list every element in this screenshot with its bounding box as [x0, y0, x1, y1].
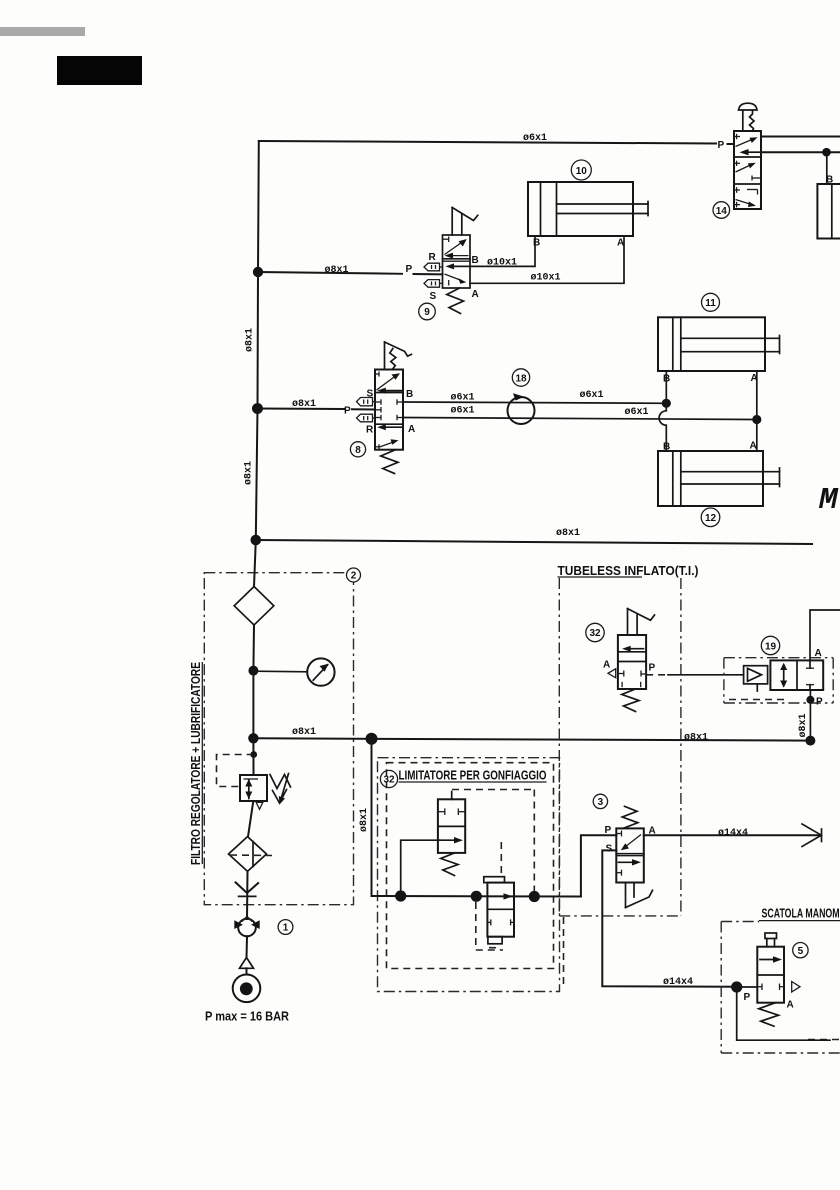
- svg-text:A: A: [787, 1000, 794, 1011]
- rotary joint 18: [508, 393, 535, 424]
- filter diamond F1: [234, 587, 274, 626]
- caption LIMITATORE PER GONFIAGGIO: [399, 769, 547, 783]
- pressure gauge G1: [307, 658, 334, 685]
- svg-text:ø8x1: ø8x1: [325, 265, 349, 276]
- port label B cylinder 12: [663, 442, 670, 453]
- valve V14 left arrow line B return: [740, 149, 762, 155]
- silencer on V9 port R: [424, 263, 443, 271]
- svg-text:A: A: [603, 660, 610, 671]
- svg-text:ø10x1: ø10x1: [531, 273, 561, 284]
- valve V8 top section arrow: [375, 372, 400, 391]
- svg-text:ø8x1: ø8x1: [245, 328, 256, 352]
- pipe label ø10x1 lower: [531, 273, 561, 284]
- pilot regulator PR1 body: [487, 883, 514, 937]
- port label P valve 32a: [649, 663, 656, 674]
- valve V32b flow arrow: [440, 837, 463, 843]
- valve V3 body 3/2: [616, 828, 644, 882]
- valve V14 palm button actuator: [739, 103, 758, 131]
- enclosure LIMITATORE outer dash-dot box: [378, 758, 560, 992]
- port label A unit 19: [815, 648, 822, 659]
- pipe label ø8x1 vertical upper: [245, 328, 256, 352]
- wire: V9 A to cylinder 10 A ø10x1: [470, 236, 624, 283]
- label circle 18: [512, 369, 529, 386]
- valve V8 bottom left arrow: [377, 424, 402, 430]
- wire: filter to gauge tee: [252, 625, 255, 671]
- port label R valve 9: [429, 252, 437, 263]
- caption TUBELESS INFLATO(T.I.): [558, 564, 699, 578]
- svg-text:19: 19: [765, 641, 777, 652]
- valve V9 B-to-R arrow: [446, 263, 471, 269]
- cylinder C11 piston rod: [681, 336, 780, 354]
- wire: limiter to valve 3 P riser: [581, 835, 616, 896]
- valve V32a pedal lever actuator: [628, 609, 655, 635]
- svg-text:ø14x4: ø14x4: [663, 977, 693, 988]
- wire: branch ø8x1 to valve 9 P: [258, 272, 443, 274]
- svg-text:M: M: [818, 483, 839, 518]
- cylinder C12 body: [658, 451, 763, 506]
- port label A valve 9: [472, 289, 479, 300]
- valve V3 top spring: [622, 806, 638, 828]
- svg-text:P: P: [344, 406, 351, 417]
- node H junction dot ø8x1 distribution: [248, 733, 258, 743]
- valve V32b return spring: [441, 853, 458, 876]
- wire: unit 19 P down to ø8x1 line: [809, 690, 811, 741]
- valve V9 return spring: [447, 288, 464, 314]
- port label A valve 32a: [603, 660, 610, 671]
- valve V3 bottom lever actuator: [626, 883, 653, 908]
- svg-text:14: 14: [716, 206, 728, 217]
- svg-text:12: 12: [705, 513, 717, 524]
- enclosure TUBELESS INFLATOR dash-dot box: [559, 578, 681, 988]
- valve V3 top diagonal arrow A to S: [616, 831, 641, 851]
- svg-text:P: P: [816, 697, 823, 708]
- wire: V14 side line to node D: [761, 151, 840, 153]
- node E junction dot B-net: [662, 399, 671, 408]
- pilot regulator PR1 bottom tab: [488, 937, 502, 948]
- svg-text:B: B: [663, 442, 670, 453]
- pipe label ø8x1 branch1: [325, 265, 349, 276]
- label circle 5: [793, 943, 808, 958]
- pipe label ø6x1 B-left: [451, 393, 475, 404]
- label circle 12: [701, 508, 720, 527]
- wire: gauge tee down to ø8x1 tee: [252, 671, 254, 738]
- port label S valve 9: [430, 291, 437, 302]
- valve V9 R exhaust arrow: [445, 253, 469, 259]
- wire: node D down to cylinder 15 port B: [826, 152, 828, 184]
- wire: bottom distribution line ø8x1: [256, 540, 812, 544]
- svg-text:ø6x1: ø6x1: [625, 407, 649, 418]
- valve V8 upper left arrow: [377, 388, 402, 394]
- node N junction dot at pilot regulator left: [471, 891, 482, 902]
- regulator drain triangle: [256, 802, 263, 809]
- node B junction dot main/branch2: [252, 403, 263, 414]
- svg-text:18: 18: [515, 373, 527, 384]
- valve V14 section3 arrows: [734, 187, 758, 207]
- valve V9 roller-lever actuator: [452, 208, 478, 236]
- pipe label ø14x4 upper: [718, 828, 748, 839]
- wire: supply into box 2: [254, 540, 256, 587]
- label circle 9: [419, 303, 436, 320]
- valve V32b top box ticks: [438, 808, 465, 815]
- port label S valve 3: [606, 844, 613, 855]
- svg-text:B: B: [663, 374, 670, 385]
- valve V8 centre section port ticks: [375, 399, 403, 420]
- svg-text:SCATOLA MANOME: SCATOLA MANOME: [762, 907, 840, 921]
- pipe label ø8x1 vertical at unit 19: [798, 713, 809, 737]
- svg-text:32: 32: [589, 628, 601, 639]
- valve V32a return spring: [622, 689, 639, 712]
- port label P valve 9: [406, 264, 413, 275]
- pipe label ø14x4 lower: [663, 977, 693, 988]
- label circle 8: [350, 442, 365, 457]
- port label B cylinder 15: [826, 175, 833, 186]
- pipe label ø8x1 mid: [684, 733, 708, 744]
- node C junction dot main/bottom line: [251, 535, 262, 546]
- cylinder C12 piston rod: [681, 468, 780, 487]
- svg-text:P: P: [744, 992, 751, 1003]
- pilot line dashed to regulator: [217, 755, 254, 787]
- svg-text:ø8x1: ø8x1: [292, 399, 316, 410]
- silencer on V9 port S: [424, 280, 443, 288]
- pipe label ø8x1 at FRL: [292, 727, 316, 738]
- port label A valve 8: [408, 424, 415, 435]
- port label S valve 8: [367, 389, 374, 400]
- wire: A net vertical cylinder 11 to cylinder 12: [756, 371, 758, 451]
- svg-text:A: A: [408, 424, 415, 435]
- pipe label ø6x1 top: [523, 133, 547, 144]
- svg-text:S: S: [606, 844, 613, 855]
- label circle 1: [278, 920, 293, 935]
- svg-text:P max = 16 BAR: P max = 16 BAR: [205, 1010, 289, 1024]
- svg-text:A: A: [472, 289, 479, 300]
- valve V14 body 3-position: [734, 131, 761, 209]
- svg-text:1: 1: [283, 923, 289, 934]
- node J small dot pilot takeoff: [250, 751, 257, 758]
- port label P unit 19: [816, 697, 823, 708]
- cylinder C11 body: [658, 317, 765, 371]
- svg-text:ø10x1: ø10x1: [487, 258, 517, 269]
- wire: branch ø8x1 to valve 8 P: [258, 409, 376, 410]
- wire: valve 3 A outlet ø14x4 with arrow: [644, 824, 822, 847]
- cylinder C10 body: [528, 182, 633, 236]
- svg-text:8: 8: [355, 445, 361, 456]
- svg-text:9: 9: [424, 307, 430, 318]
- check valve in unit 19: [744, 666, 768, 691]
- port label B cylinder 11: [663, 374, 670, 385]
- node P junction dot scatola inlet: [731, 981, 742, 992]
- svg-text:A: A: [815, 648, 822, 659]
- svg-text:TUBELESS INFLATO(T.I.): TUBELESS INFLATO(T.I.): [558, 564, 699, 578]
- valve V9 bottom diagonal arrow: [445, 274, 467, 286]
- svg-text:A: A: [751, 373, 758, 384]
- wire: B net vertical cylinder 11 to cylinder 12: [659, 371, 666, 451]
- pilot regulator PR1 lower ticks: [487, 919, 514, 925]
- svg-text:ø14x4: ø14x4: [718, 828, 748, 839]
- wire: V8 A line ø6x1 with hop over B net: [403, 418, 753, 420]
- caption SCATOLA MANOM: [762, 907, 840, 921]
- svg-text:ø8x1: ø8x1: [359, 808, 370, 832]
- valve V32a exhaust triangle port A: [608, 669, 616, 678]
- silencer on V8 port R: [357, 414, 376, 422]
- label circle 2: [347, 568, 361, 582]
- pipe label ø10x1 upper: [487, 258, 517, 269]
- wire: coupling to check triangle: [246, 936, 249, 958]
- port label P valve 8: [344, 406, 351, 417]
- quick coupling body circle: [234, 916, 259, 936]
- svg-text:B: B: [406, 389, 413, 400]
- svg-text:P: P: [406, 264, 413, 275]
- wire: main vertical supply line: [256, 141, 259, 540]
- port label P valve 14: [718, 140, 725, 151]
- svg-text:5: 5: [798, 946, 804, 957]
- valve V9 top section arrow: [443, 237, 467, 255]
- node A junction dot main/branch1: [253, 267, 263, 277]
- wire: V9 B to cylinder 10 B ø10x1: [470, 236, 535, 266]
- enclosure SCATOLA MANOMETRO dashed box: [721, 921, 840, 1053]
- svg-text:S: S: [430, 291, 437, 302]
- check triangle symbol: [240, 958, 254, 969]
- valve V32a bottom ticks: [618, 671, 646, 688]
- valve V5 return spring: [759, 1003, 779, 1026]
- pilot regulator PR1 flow arrow: [504, 893, 513, 899]
- svg-text:ø6x1: ø6x1: [523, 133, 547, 144]
- svg-text:A: A: [617, 238, 624, 249]
- cylinder C10 piston rod: [557, 202, 649, 216]
- svg-text:32: 32: [383, 775, 395, 786]
- node M junction dot limiter left: [395, 890, 406, 901]
- regulator adjusting spring: [270, 774, 291, 805]
- svg-text:3: 3: [598, 797, 604, 808]
- wire: V14 top outlet to right edge: [761, 136, 840, 138]
- svg-text:P: P: [649, 663, 656, 674]
- valve V8 bottom diagonal arrow: [375, 439, 399, 449]
- wire: ø8x1 line from FRL to valve 19 P net: [253, 738, 810, 740]
- wire: lubricator to outlet chevron: [246, 871, 249, 919]
- caption P max = 16 BAR: [205, 1010, 289, 1024]
- valve V5 body 3/2: [757, 947, 784, 1003]
- wire: regulator to lubricator: [248, 801, 253, 837]
- wire: branch to pressure gauge: [253, 670, 307, 673]
- valve V8 return spring: [381, 450, 398, 474]
- wire: unit 19 A up and right to edge: [810, 610, 840, 660]
- valve V32a top arrow: [622, 646, 644, 652]
- wire: V8 B line ø6x1 to node E: [403, 402, 666, 403]
- valve V32b body 3/2 in limiter: [438, 792, 465, 853]
- valve V9 body 5/2: [443, 235, 471, 288]
- wire: limiter line up into V32b: [401, 840, 440, 896]
- label circle 14: [713, 202, 730, 219]
- pressure regulator R1: [240, 775, 267, 801]
- svg-text:P: P: [718, 140, 725, 151]
- label circle 19: [761, 636, 779, 654]
- regulator valve in unit 19: [770, 660, 823, 690]
- port label B valve 8: [406, 389, 413, 400]
- svg-text:ø8x1: ø8x1: [684, 733, 708, 744]
- port label A valve 3: [649, 826, 656, 837]
- valve V5 push button actuator: [765, 933, 777, 947]
- svg-text:ø8x1: ø8x1: [556, 528, 580, 539]
- lubricator L1 diamond: [229, 837, 273, 872]
- node O junction dot at pilot regulator right: [529, 891, 540, 902]
- svg-text:10: 10: [576, 166, 588, 177]
- svg-text:P: P: [605, 825, 612, 836]
- valve V8 body 5/3: [375, 370, 403, 450]
- valve V3 lower flow arrow: [616, 859, 641, 876]
- node D junction dot at cylinder 15 branch: [822, 148, 831, 157]
- valve V5 lower ticks: [757, 984, 784, 991]
- enclosure LIMITATORE inner dashed box: [387, 763, 554, 969]
- port label A cylinder 11: [751, 373, 758, 384]
- node K junction dot unit 19 P: [806, 696, 814, 704]
- unit 19 double arrow element: [780, 663, 787, 688]
- node G junction dot gauge branch: [248, 666, 258, 676]
- port label P valve 5: [744, 992, 751, 1003]
- svg-text:FILTRO REGOLATORE + LUBRIFICAT: FILTRO REGOLATORE + LUBRIFICATORE: [189, 662, 203, 865]
- valve V14 section1 arrow: [734, 134, 758, 147]
- svg-text:ø8x1: ø8x1: [244, 461, 255, 485]
- svg-text:ø8x1: ø8x1: [292, 727, 316, 738]
- svg-text:B: B: [533, 238, 540, 249]
- node F junction dot A-net: [752, 415, 761, 424]
- pipe label ø6x1 A-right: [625, 407, 649, 418]
- wire: node P to valve 5: [737, 986, 758, 988]
- svg-text:S: S: [367, 389, 374, 400]
- pipe label ø8x1 bottom line: [556, 528, 580, 539]
- svg-text:A: A: [750, 441, 757, 452]
- label circle 10: [571, 160, 591, 180]
- pilot regulator PR1 top tab: [484, 877, 505, 883]
- pipe label ø8x1 vertical lower: [244, 461, 255, 485]
- scan artifact gray bar top-left: [0, 27, 85, 36]
- svg-text:ø8x1: ø8x1: [798, 713, 809, 737]
- pipe label ø8x1 limiter vertical: [359, 808, 370, 832]
- node I junction dot limiter branch: [366, 733, 378, 745]
- stray letter M at right margin: [818, 483, 839, 518]
- enclosure valve 19 dashed box: [724, 658, 833, 703]
- unit 19 right cell ports: [806, 660, 814, 690]
- svg-text:R: R: [429, 252, 437, 263]
- enclosure box 2 FRL unit dash-dot: [204, 573, 353, 905]
- wire: node P down and right inside scatola: [737, 987, 830, 1040]
- port label A cylinder 10: [617, 238, 624, 249]
- wire: top supply line ø6x1 from node corner to valve 14 P: [259, 141, 734, 144]
- wire: V32a P pilot line to valve 19: [646, 674, 744, 676]
- label circle 11: [702, 293, 720, 311]
- svg-text:R: R: [366, 425, 374, 436]
- valve V14 section2 arrow and blocked port: [734, 161, 760, 181]
- valve V32a body 3/2: [618, 635, 646, 689]
- port label A valve 5: [787, 1000, 794, 1011]
- svg-text:11: 11: [705, 298, 716, 309]
- svg-text:LIMITATORE PER GONFIAGGIO: LIMITATORE PER GONFIAGGIO: [399, 769, 547, 783]
- port label P valve 3: [605, 825, 612, 836]
- svg-text:ø6x1: ø6x1: [451, 406, 475, 417]
- pressure source S1: [233, 975, 261, 1003]
- pipe label ø6x1 B-right: [580, 390, 604, 401]
- label circle 32 tubeless valve: [586, 623, 604, 641]
- port label A cylinder 12: [750, 441, 757, 452]
- pilot dashes inside limiter box: [452, 790, 534, 951]
- node L junction dot on ø8x1 line: [805, 736, 815, 746]
- redacted black box top-left: [57, 56, 142, 85]
- valve V8 lever actuator with spring element: [385, 342, 412, 370]
- label circle 3: [593, 794, 607, 808]
- valve V5 exhaust triangle A: [792, 982, 800, 993]
- svg-text:ø6x1: ø6x1: [580, 390, 604, 401]
- cylinder 15 at right page edge: [817, 184, 840, 239]
- svg-text:B: B: [472, 255, 479, 266]
- silencer on V8 port S: [357, 398, 376, 406]
- pipe label ø6x1 A-left: [451, 406, 475, 417]
- caption FILTRO REGOLATORE + LUBRIFICATORE: [189, 662, 203, 865]
- pipe label ø8x1 branch2: [292, 399, 316, 410]
- wire: limiter bottom line: [372, 895, 581, 898]
- port label B cylinder 10: [533, 238, 540, 249]
- valve V5 top flow arrow: [760, 956, 782, 962]
- wire: valve 3 S line down to scatola: [602, 850, 736, 986]
- wire: triangle to source: [246, 968, 248, 974]
- svg-text:ø6x1: ø6x1: [451, 393, 475, 404]
- svg-text:2: 2: [351, 571, 357, 582]
- port label R valve 8: [366, 425, 374, 436]
- wire: node I down to limiter line: [371, 739, 373, 896]
- flow chevron symbol: [236, 882, 259, 896]
- wire: tee down to regulator: [252, 738, 254, 775]
- label circle 32 limiter: [380, 770, 397, 787]
- port label B valve 9: [472, 255, 479, 266]
